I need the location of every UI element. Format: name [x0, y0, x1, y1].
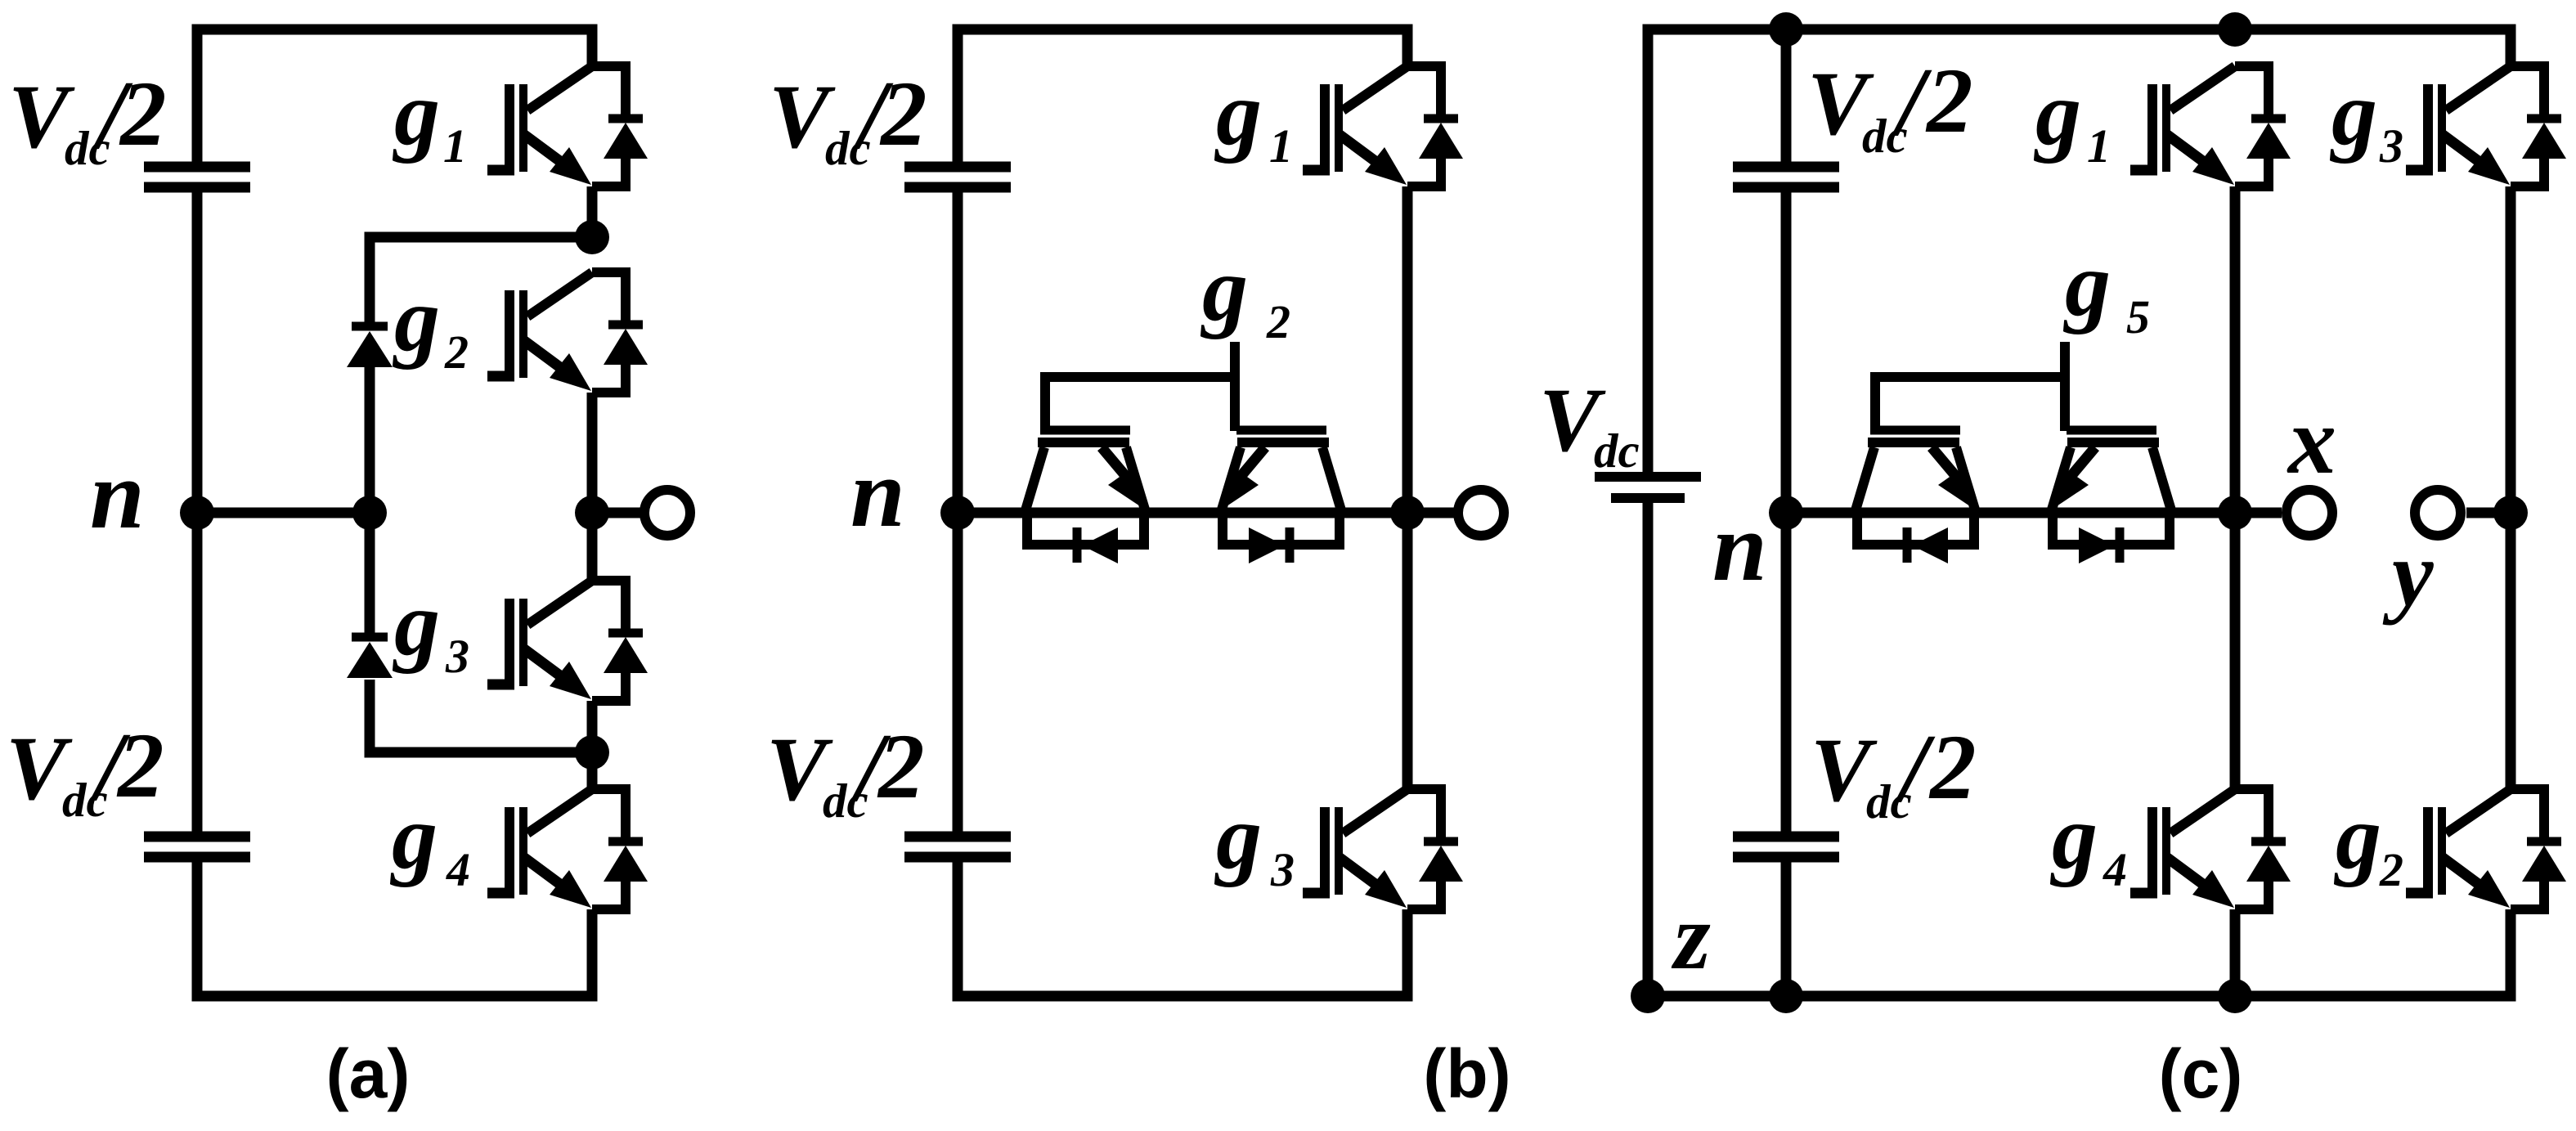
transistor g3 (a) IGBT with antiparallel diode	[487, 581, 648, 701]
svg-text:n: n	[1712, 492, 1767, 601]
svg-text:g: g	[392, 573, 440, 675]
wire: (b) left rail n down to cap C4	[953, 513, 963, 832]
label g3 (a)	[392, 573, 469, 683]
svg-text:g: g	[392, 269, 440, 370]
wire: (c) capacitor rail C6 to bottom rail	[1781, 862, 1792, 996]
svg-text:1: 1	[2087, 119, 2111, 173]
node x junction dot (c)	[2218, 496, 2252, 530]
label g1 (c)	[2033, 63, 2111, 173]
svg-text:1: 1	[1269, 119, 1293, 173]
wire: (b) output stub	[1407, 508, 1458, 518]
wire: (b) left rail cap C3 to n	[953, 192, 963, 513]
capacitor C2 (a) lower V_dc/2	[144, 837, 250, 857]
wire: (c) g3 emitter down to y junction	[2506, 186, 2516, 513]
node z dot bottom left (c)	[1631, 979, 1665, 1013]
node dot on top rail at capacitor rail (c)	[1769, 12, 1803, 47]
transistor g3 (b) IGBT with antiparallel diode	[1303, 789, 1463, 909]
wire: (a) bottom rail from C2 to g4 emitter	[197, 862, 592, 996]
label n (b)	[850, 438, 905, 547]
value label V_dc/2 for C3 (b)	[769, 61, 927, 175]
node n dot (b)	[940, 496, 975, 530]
output terminal circle (b)	[1458, 490, 1504, 536]
wire: (b) gate stub from g2 label	[1230, 342, 1240, 431]
wire: (b) top rail from left rail to g1 collector	[958, 29, 1407, 163]
wire: (a) output node down to g3 collector	[587, 513, 598, 586]
label g2 (a)	[392, 269, 469, 379]
svg-text:3: 3	[2379, 119, 2403, 173]
wire: (c) neutral row from n to x junction	[1786, 508, 2235, 518]
value label V_dc for battery (c)	[1539, 370, 1640, 478]
wire: (a) output stub	[592, 508, 644, 518]
transistor g2 (a) IGBT with antiparallel diode	[487, 272, 648, 393]
label g3 (c)	[2329, 63, 2403, 173]
wire: (c) bottom rail from z to g2 emitter	[1648, 909, 2511, 996]
svg-text:2: 2	[1928, 716, 1977, 819]
svg-text:2: 2	[119, 63, 167, 165]
capacitor C1 (a) upper V_dc/2	[144, 167, 250, 187]
wire: (a) g1 emitter to junction	[587, 186, 598, 237]
node output junction dot (a)	[575, 496, 609, 530]
svg-text:g: g	[2329, 63, 2377, 164]
node junction dot (a) g3-g4 midpoint	[575, 735, 609, 770]
label g1 (a)	[392, 63, 467, 173]
svg-text:x: x	[2287, 387, 2336, 494]
label g5 (c)	[2062, 234, 2150, 343]
value label V_dc/2 for C6 (c)	[1811, 714, 1977, 828]
wire: (c) capacitor rail n down to cap C6	[1781, 513, 1792, 833]
transistor g2 (c) IGBT with antiparallel diode	[2406, 789, 2566, 909]
label g2 (c)	[2333, 787, 2403, 896]
transistor g3 (c) IGBT with antiparallel diode	[2406, 66, 2566, 186]
node output junction dot (b)	[1390, 496, 1425, 530]
node dot on top rail at g1 leg (c)	[2218, 12, 2252, 47]
clamp diode D1 (a)	[347, 326, 393, 367]
label g2 (b)	[1200, 239, 1290, 348]
value label V_dc/2 for C4 (b)	[766, 713, 925, 828]
transistor g5 left IGBT of bidirectional switch (c)	[1856, 430, 1977, 563]
wire: (a) junction to clamp diode D1	[370, 237, 592, 323]
svg-text:3: 3	[445, 630, 469, 683]
svg-text:dc: dc	[1594, 424, 1640, 478]
svg-text:2: 2	[116, 715, 164, 817]
svg-text:5: 5	[2126, 290, 2150, 343]
wire: (c) gate stub from g5 label	[2060, 342, 2070, 431]
svg-text:g: g	[2062, 234, 2111, 335]
svg-text:g: g	[2049, 787, 2098, 888]
label g3 (b)	[1214, 787, 1295, 896]
wire: (b) output node down to g3 collector	[1402, 513, 1413, 793]
value label V_dc/2 for C1 (a)	[8, 61, 167, 175]
clamp diode D2 (a)	[347, 637, 393, 678]
svg-text:2: 2	[1925, 50, 1973, 152]
svg-text:2: 2	[1266, 295, 1290, 348]
transistor g4 (c) IGBT with antiparallel diode	[2130, 789, 2291, 909]
capacitor C3 (b) upper V_dc/2	[904, 167, 1011, 187]
capacitor C5 (c) upper V_dc/2	[1733, 167, 1839, 187]
label g4 (c)	[2049, 787, 2127, 896]
value label V_dc/2 for C5 (c)	[1807, 47, 1973, 163]
wire: (a) junction down to g4 collector	[587, 752, 598, 793]
svg-text:g: g	[389, 787, 438, 888]
value label V_dc/2 for C2 (a)	[6, 712, 164, 827]
label y (c)	[2382, 522, 2434, 626]
node n dot (c)	[1769, 496, 1803, 530]
svg-text:2: 2	[877, 716, 925, 818]
svg-text:2: 2	[879, 63, 927, 165]
wire: (a) D1 anode down to neutral row	[365, 367, 375, 513]
svg-text:2: 2	[444, 325, 469, 379]
label x (c)	[2287, 387, 2336, 494]
node dot bottom rail at capacitor rail (c)	[1769, 979, 1803, 1013]
svg-text:(c): (c)	[2159, 1035, 2243, 1112]
transistor g2 right IGBT of bidirectional switch (b)	[1219, 430, 1341, 563]
svg-text:2: 2	[2379, 843, 2403, 896]
wire: (b) gate bus of bidirectional switch g2	[1045, 377, 1235, 431]
wire: (c) x junction down to g4 collector	[2230, 513, 2241, 793]
svg-text:(b): (b)	[1423, 1035, 1510, 1112]
wire: (b) bottom rail from C4 to g3 emitter	[958, 862, 1407, 996]
transistor g4 (a) IGBT with antiparallel diode	[487, 789, 648, 909]
wire: (c) capacitor rail top	[1781, 29, 1792, 162]
capacitor C6 (c) lower V_dc/2	[1733, 837, 1839, 857]
node y junction dot (c)	[2493, 496, 2528, 530]
wire: (c) y terminal stub	[2466, 508, 2511, 518]
wire: (c) g4 emitter to bottom rail	[2230, 909, 2241, 996]
transistor g5 right IGBT of bidirectional switch (c)	[2049, 430, 2171, 563]
terminal x circle (c)	[2287, 490, 2332, 536]
svg-text:n: n	[90, 440, 145, 549]
wire: (c) top rail from battery to g3 collector	[1648, 29, 2511, 473]
svg-text:g: g	[1214, 787, 1262, 888]
svg-text:g: g	[2333, 787, 2381, 888]
wire: (a) neutral row down to D2 cathode	[365, 513, 375, 634]
label z (c)	[1671, 885, 1711, 989]
wire: (c) g1 emitter down to x junction	[2230, 186, 2241, 513]
transistor g1 (c) IGBT with antiparallel diode	[2130, 66, 2291, 186]
capacitor C4 (b) lower V_dc/2	[904, 837, 1011, 857]
node n dot (a)	[180, 496, 214, 530]
svg-text:1: 1	[443, 119, 467, 173]
wire: (a) left rail n down to cap C2	[192, 513, 203, 832]
wire: (a) junction to clamp diode D2	[370, 680, 592, 752]
wire: (c) battery negative to bottom rail	[1643, 503, 1654, 996]
wire: (a) left rail cap C1 to n	[192, 192, 203, 513]
wire: (c) y junction down to g2 collector	[2506, 513, 2516, 793]
wire: (a) g3 emitter to junction	[587, 701, 598, 752]
svg-text:g: g	[1214, 63, 1262, 164]
transistor g2 left IGBT of bidirectional switch (b)	[1025, 430, 1147, 563]
svg-text:z: z	[1671, 885, 1711, 989]
node dot bottom rail at g4 leg (c)	[2218, 979, 2252, 1013]
wire: (c) gate bus of bidirectional switch g5	[1875, 377, 2065, 431]
battery V_dc (c)	[1595, 477, 1701, 498]
svg-text:g: g	[392, 63, 440, 164]
wire: (a) neutral row from n to clamp rail	[197, 508, 370, 518]
transistor g1 (b) IGBT with antiparallel diode	[1303, 66, 1463, 186]
svg-text:4: 4	[2103, 843, 2127, 896]
node clamp junction on neutral row (a)	[352, 496, 387, 530]
terminal y circle (c)	[2415, 490, 2461, 536]
label n (c)	[1712, 492, 1767, 601]
label g4 (a)	[389, 787, 470, 896]
svg-text:n: n	[850, 438, 905, 547]
wire: (c) x terminal stub	[2235, 508, 2282, 518]
wire: (b) g1 emitter down to output node	[1402, 186, 1413, 513]
svg-text:g: g	[1200, 239, 1248, 340]
wire: (c) capacitor rail C5 to n	[1781, 192, 1792, 513]
svg-text:g: g	[2033, 63, 2081, 164]
wire: (a) g2 emitter to output node	[587, 393, 598, 513]
transistor g1 (a) IGBT with antiparallel diode	[487, 66, 648, 186]
svg-text:(a): (a)	[326, 1035, 411, 1112]
wire: (a) top rail from left rail to g1 collector	[197, 29, 592, 163]
svg-text:3: 3	[1270, 843, 1295, 896]
wire: (b) neutral row from n to output node	[958, 508, 1407, 518]
node junction dot (a) g1-g2 midpoint	[575, 220, 609, 254]
output terminal circle (a)	[644, 490, 690, 536]
label g1 (b)	[1214, 63, 1293, 173]
label n (a)	[90, 440, 145, 549]
svg-text:4: 4	[446, 843, 470, 896]
